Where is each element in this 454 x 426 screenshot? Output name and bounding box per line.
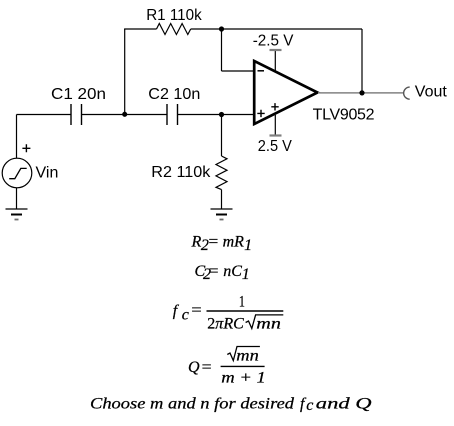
node junction C2-R2 <box>219 112 224 117</box>
svg-text:mn: mn <box>256 315 281 332</box>
svg-text:R1 110k: R1 110k <box>146 7 202 24</box>
svg-text:m + 1: m + 1 <box>221 369 265 386</box>
svg-text:1: 1 <box>242 266 250 283</box>
node junction C1-C2 <box>122 112 127 117</box>
note choose m and n for desired fc and Q <box>90 396 372 415</box>
resistor R1 <box>157 24 191 35</box>
svg-text:=: = <box>209 263 219 280</box>
svg-text:R: R <box>191 234 202 251</box>
svg-text:TLV9052: TLV9052 <box>313 107 375 124</box>
svg-text:nC: nC <box>223 263 242 280</box>
resistor R2 <box>216 156 227 190</box>
equation C2 = nC1 <box>195 263 250 283</box>
power supply 2.5 V positive rail <box>270 115 282 136</box>
wire input horizontal Vin to C1 <box>17 114 72 116</box>
node junction output <box>359 90 364 95</box>
svg-text:Vout: Vout <box>415 84 448 101</box>
equation Q = sqrt mn over m plus 1 <box>188 347 266 387</box>
wire top left vertical from C1-C2 node up to R1 <box>124 29 126 115</box>
svg-text:c: c <box>182 306 189 323</box>
wire node down to R2 <box>221 115 223 157</box>
wire C2 to non-inverting input <box>178 114 255 116</box>
svg-text:Q: Q <box>188 359 200 376</box>
output terminal Vout <box>404 87 410 99</box>
op-amp U1 TLV9052 <box>254 61 317 124</box>
power supply -2.5 V negative rail <box>270 50 282 71</box>
wire between C1 and C2 <box>82 114 168 116</box>
svg-text:=: = <box>202 359 212 376</box>
svg-text:R2 110k: R2 110k <box>151 164 211 181</box>
svg-text:mn: mn <box>236 347 258 364</box>
svg-text:1: 1 <box>239 294 245 311</box>
wire R2 to ground <box>221 190 223 209</box>
svg-text:-2.5 V: -2.5 V <box>253 33 294 50</box>
wire vertical feedback down to inverting input <box>221 29 223 71</box>
capacitor C2 <box>167 104 178 125</box>
wire top horizontal right of R1 to output branch <box>191 28 362 30</box>
svg-text:2πRC: 2πRC <box>207 315 244 332</box>
svg-text:C2 10n: C2 10n <box>148 86 200 103</box>
wire top horizontal left of R1 <box>124 28 156 30</box>
svg-text:mR: mR <box>223 234 245 251</box>
wire vertical output branch to top feedback <box>361 29 363 93</box>
equation fc = 1 over 2 pi R C sqrt mn <box>173 294 283 333</box>
wire Vin top vertical <box>16 115 18 159</box>
svg-text:=: = <box>209 234 219 251</box>
equation R2 = mR1 <box>191 234 253 254</box>
svg-text:2.5 V: 2.5 V <box>258 138 292 155</box>
svg-text:1: 1 <box>244 237 252 254</box>
wire inverting input horizontal <box>222 70 255 72</box>
ground below Vin <box>6 209 28 220</box>
node junction feedback at R1 right <box>219 26 224 31</box>
svg-text:C1 20n: C1 20n <box>51 86 106 103</box>
ground below R2 <box>211 209 233 220</box>
svg-text:c: c <box>306 397 313 414</box>
svg-text:Vin: Vin <box>36 164 59 181</box>
capacitor C1 <box>71 104 82 125</box>
svg-text:and Q: and Q <box>316 396 372 413</box>
wire Vin to ground <box>16 188 18 209</box>
voltage source Vin <box>2 144 32 188</box>
wire output grey from op-amp to Vout <box>318 92 404 94</box>
svg-text:Choose m and n for desired: Choose m and n for desired <box>90 396 295 413</box>
svg-text:=: = <box>191 302 202 319</box>
